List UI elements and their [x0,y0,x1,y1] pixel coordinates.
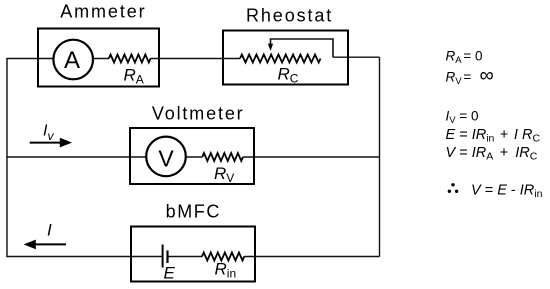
svg-text:A: A [64,47,80,74]
wire wiper tap [271,39,334,57]
wire voltmeter internal left [130,156,146,158]
wire node to ammeter (top left) [6,58,38,60]
resistor RC (rheostat) [240,55,321,63]
rheostat box [223,31,348,85]
wire rheostat output to right rail [333,56,380,58]
wire RA to box edge and on to rheostat [151,58,224,60]
wire ammeter internal left [38,58,53,60]
battery E short plate [166,251,168,264]
meter A (ammeter movement) [53,40,93,80]
wire left rail [6,59,8,258]
resistor RV [202,153,243,161]
svg-text:V: V [158,146,174,172]
svg-text:bMFC: bMFC [166,202,221,222]
resistor RA [109,55,151,63]
wire node to bMFC (bottom rail) [6,256,131,258]
voltmeter box [130,128,254,184]
svg-text:Ammeter: Ammeter [60,2,146,22]
wire battery to Rin [169,256,203,258]
battery E long plate [162,245,164,268]
current arrow I [34,243,66,245]
svg-text:Rheostat: Rheostat [246,5,333,25]
svg-text:Voltmeter: Voltmeter [152,104,245,124]
wire right rail [379,57,381,256]
resistor Rin [202,253,244,261]
wire bMFC internal left [131,256,162,258]
wire meter A to RA [93,58,109,60]
wire bMFC to right rail [244,256,379,258]
svg-text:RA = 0: RA = 0 [446,49,483,66]
therefore symbol [451,183,454,186]
wire voltmeter to right rail [243,156,380,158]
current arrow Iv [30,142,62,144]
ammeter box [38,29,159,87]
wire node to voltmeter (middle left) [6,156,130,158]
wire meter V to RV [186,156,203,158]
bMFC box [131,227,255,282]
wire rheostat internal left [223,58,240,60]
voltmeter meter V [146,137,186,177]
rheostat wiper arrowhead [268,44,273,51]
svg-text:V = E - IRin: V = E - IRin [471,183,543,201]
svg-text:E: E [164,264,176,283]
svg-text:I: I [47,221,52,240]
